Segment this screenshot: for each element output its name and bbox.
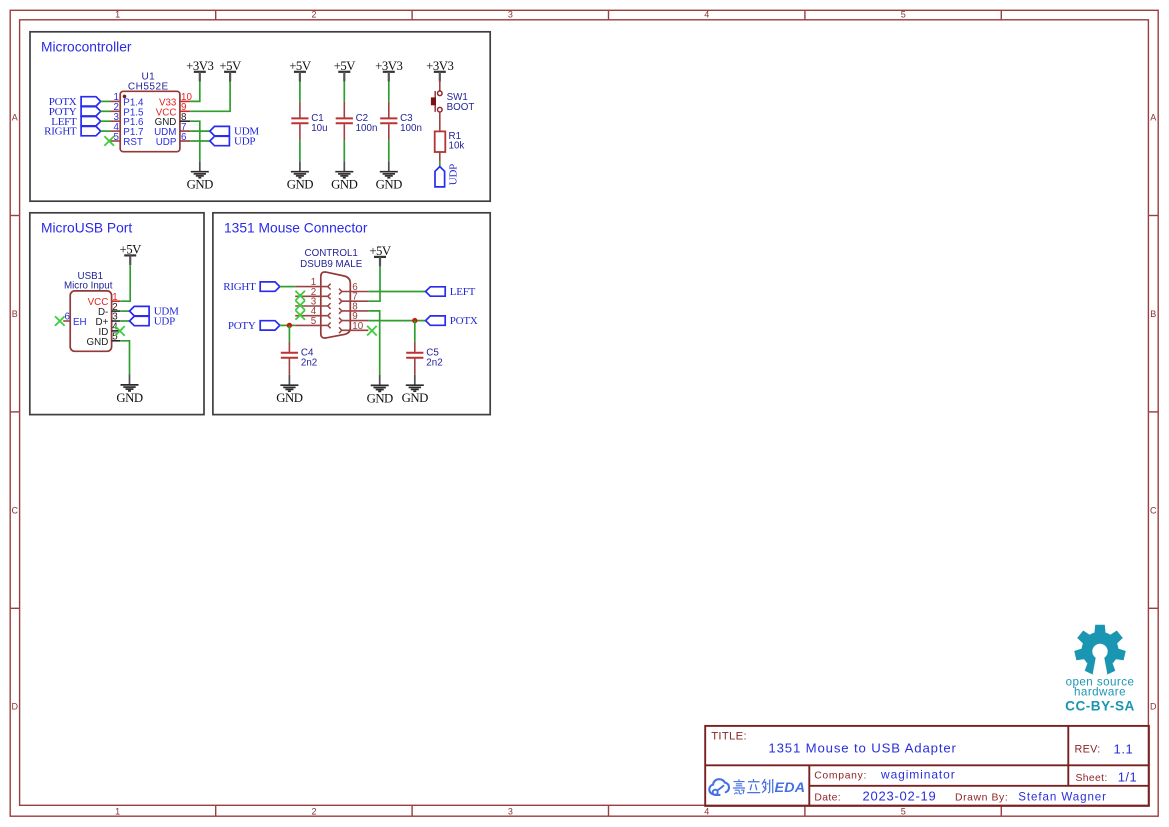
svg-text:EDA: EDA [775, 780, 806, 796]
svg-text:A: A [1150, 113, 1156, 123]
svg-text:3: 3 [508, 10, 513, 20]
svg-text:3: 3 [508, 806, 513, 816]
svg-text:RIGHT: RIGHT [44, 126, 77, 138]
no-connect X on USB1 ID pin4 [115, 326, 125, 336]
capacitor C4 2n2 [281, 342, 317, 375]
wire +3V3 to C3 [388, 82, 390, 102]
wire U1 pin7 to UDM flag [190, 130, 210, 132]
svg-text:Company:: Company: [814, 771, 867, 782]
ground below C5 [402, 375, 428, 405]
no-connect X on U1 RST pin5 [104, 136, 114, 146]
svg-text:Drawn By:: Drawn By: [955, 792, 1008, 803]
wire U1 pin6 to UDP flag [190, 140, 210, 142]
svg-text:5: 5 [901, 10, 906, 20]
svg-text:B: B [1150, 309, 1156, 319]
ground below U1 [187, 161, 213, 191]
no-connect X on CONTROL1 pin2 [295, 291, 305, 301]
svg-text:UDP: UDP [234, 136, 255, 148]
svg-text:2: 2 [311, 806, 316, 816]
MicroUSB Port section box [30, 213, 204, 415]
svg-text:C: C [1150, 505, 1157, 515]
svg-text:6: 6 [65, 312, 71, 323]
frame column labels bottom 1-5 [115, 806, 906, 816]
svg-text:10k: 10k [449, 141, 465, 152]
wire POTY to U1 pin2 [101, 110, 111, 112]
CC-BY-SA text [1065, 699, 1135, 714]
wire C1 to GND [299, 141, 301, 162]
power flag +5V (above C1) [289, 59, 312, 82]
EasyEDA logo text JLC-EDA [733, 779, 805, 796]
svg-text:Date:: Date: [814, 792, 841, 803]
svg-text:100n: 100n [400, 123, 422, 134]
power flag +3V3 (above C3) [375, 59, 402, 82]
svg-text:1351 Mouse to USB Adapter: 1351 Mouse to USB Adapter [768, 740, 956, 755]
svg-text:5: 5 [114, 132, 120, 143]
svg-text:UDP: UDP [448, 164, 460, 185]
svg-text:UDP: UDP [156, 137, 177, 148]
wire C2 to GND [343, 141, 345, 162]
svg-text:1351 Mouse Connector: 1351 Mouse Connector [224, 221, 368, 236]
svg-text:CC-BY-SA: CC-BY-SA [1065, 699, 1135, 714]
svg-text:4: 4 [704, 806, 709, 816]
svg-text:GND: GND [402, 391, 428, 405]
ground below C1 [287, 161, 313, 191]
wire CONTROL1 pin9 to POTX flag [368, 320, 425, 322]
svg-text:C: C [12, 505, 19, 515]
title text 1351 Mouse to USB Adapter [768, 740, 956, 755]
svg-text:GND: GND [276, 391, 302, 405]
svg-text:D: D [1150, 702, 1157, 712]
ground below C2 [331, 161, 357, 191]
svg-text:GND: GND [367, 391, 393, 405]
svg-text:CONTROL1: CONTROL1 [305, 248, 358, 259]
wire LEFT to U1 pin3 [101, 120, 111, 122]
wire USB1 GND pin5 to ground [120, 341, 129, 375]
wire +5V to USB1 VCC pin1 [120, 265, 130, 301]
svg-text:D: D [12, 702, 19, 712]
svg-text:5: 5 [311, 316, 317, 327]
U1 right pins 10 9 8 7 6 V33 VCC GND UDM UDP [154, 92, 192, 148]
ground below CONTROL1 pin8 [367, 375, 393, 405]
capacitor C2 100n [336, 102, 378, 141]
CONTROL1 left pins 1-5 [295, 277, 330, 328]
svg-text:GND: GND [116, 391, 142, 405]
Sheet label and value [1076, 769, 1138, 784]
svg-text:1: 1 [115, 10, 120, 20]
1351 Mouse Connector section title [224, 221, 368, 236]
wire U1 pin8 GND [190, 121, 200, 161]
power flag +5V (above C2) [334, 59, 357, 82]
MicroUSB Port section title [41, 221, 132, 236]
svg-text:6: 6 [181, 132, 187, 143]
connector USB1 Micro Input body [70, 291, 111, 351]
Company label and value [814, 768, 955, 782]
svg-text:POTY: POTY [228, 320, 256, 332]
open source hardware gear logo [1074, 625, 1125, 675]
power flag +5V (above USB1) [120, 242, 143, 265]
frame row labels right A-D [1150, 113, 1157, 712]
no-connect X on CONTROL1 pin4 [295, 310, 305, 320]
net flag RIGHT (input RIGHT to CONTROL1 pin1) [223, 281, 280, 293]
capacitor C3 100n [380, 102, 422, 141]
net flag RIGHT (input RIGHT to U1 pin4) [44, 126, 101, 138]
svg-text:GND: GND [87, 337, 109, 348]
power flag +3V3 (above SW1) [426, 59, 453, 82]
svg-text:BOOT: BOOT [447, 102, 475, 113]
svg-text:2: 2 [311, 10, 316, 20]
REV label and value [1075, 741, 1134, 756]
wire POTY net down to C4 [288, 325, 290, 342]
svg-text:4: 4 [704, 10, 709, 20]
svg-text:hardware: hardware [1074, 685, 1126, 698]
svg-text:1: 1 [115, 806, 120, 816]
net flag LEFT (input LEFT to U1 pin3) [51, 116, 100, 128]
svg-text:MicroUSB Port: MicroUSB Port [41, 221, 132, 236]
wire USB1 D- to UDM flag [120, 310, 129, 312]
title block outline [705, 726, 1149, 806]
ground below C4 [276, 375, 302, 405]
CONTROL1 right pins 6-10 [339, 282, 368, 333]
net flag UDP (net UDP from USB1 D+) [130, 316, 176, 328]
svg-text:LEFT: LEFT [450, 286, 476, 298]
connector CONTROL1 reference label [300, 248, 363, 270]
svg-text:RST: RST [123, 137, 143, 148]
net flag UDM (net UDM from USB1 D-) [130, 306, 180, 318]
title block TITLE label [711, 730, 747, 742]
svg-text:wagiminator: wagiminator [880, 768, 956, 782]
svg-text:5: 5 [901, 806, 906, 816]
frame column labels top 1-5 [115, 10, 906, 20]
wire RIGHT to CONTROL1 pin1 [280, 286, 295, 288]
svg-text:RIGHT: RIGHT [223, 281, 256, 293]
power flag +5V (above CONTROL1) [369, 244, 392, 267]
wire R1 to UDP flag [439, 152, 441, 167]
svg-text:B: B [12, 309, 18, 319]
connector USB1 reference label [64, 271, 113, 292]
no-connect X on CONTROL1 pin3 [295, 301, 305, 311]
Microcontroller section box [30, 32, 490, 201]
svg-text:2023-02-19: 2023-02-19 [863, 789, 937, 804]
svg-text:Sheet:: Sheet: [1076, 773, 1108, 784]
svg-text:GND: GND [287, 178, 313, 192]
capacitor C1 10u [291, 102, 327, 141]
wire CONTROL1 pin6 to LEFT flag [368, 291, 425, 293]
wire SW1 to R1 [439, 112, 441, 131]
wire POTX net down to C5 [414, 321, 416, 342]
ground below C3 [376, 161, 402, 191]
net flag UDP (output UDP from U1 pin6) [210, 136, 256, 148]
net flag LEFT (output LEFT from CONTROL1 pin6) [426, 286, 476, 298]
net flag UDP below R1 [435, 164, 460, 187]
wire POTX to U1 pin1 [101, 100, 111, 102]
wire USB1 D+ to UDP flag [120, 320, 129, 322]
wire CONTROL1 pin8 to ground [368, 311, 379, 375]
net flag POTY (input POTY to CONTROL1 pin5) [228, 320, 280, 332]
no-connect X on CONTROL1 pin10 [367, 326, 377, 336]
junction dot on POTX net [412, 318, 417, 323]
wire +3V3 to U1 pin10 [190, 82, 200, 102]
frame column ticks bottom [216, 805, 1002, 816]
wire +5V to CONTROL1 pin7 [368, 267, 380, 302]
wire +5V to C1 [299, 82, 301, 102]
net flag POTX (input POTX to U1 pin1) [49, 96, 101, 108]
IC U1 reference label [128, 71, 169, 92]
switch SW1 BOOT [431, 80, 474, 113]
connector CONTROL1 DSUB9 shell [321, 272, 351, 338]
svg-text:POTX: POTX [450, 315, 478, 327]
svg-text:Microcontroller: Microcontroller [41, 40, 132, 55]
svg-text:2n2: 2n2 [301, 357, 317, 368]
net flag POTX (output POTX from CONTROL1 pin9) [426, 315, 478, 327]
USB1 right pins 1-5 VCC D- D+ ID GND [87, 292, 121, 348]
net flag UDM (output UDM from U1 pin7) [210, 126, 260, 138]
frame row labels left A-D [12, 113, 19, 712]
svg-text:10: 10 [352, 321, 363, 332]
resistor R1 10k [435, 131, 465, 152]
svg-text:100n: 100n [356, 123, 378, 134]
U1 left pins 1-5 P1.4 P1.5 P1.6 P1.7 RST [111, 92, 145, 148]
svg-text:A: A [12, 113, 18, 123]
no-connect X on USB1 pin6 EH [55, 316, 65, 326]
net flag POTY (input POTY to U1 pin2) [49, 106, 101, 118]
wire RIGHT to U1 pin4 [101, 130, 111, 132]
svg-text:1.1: 1.1 [1114, 741, 1134, 756]
svg-text:GND: GND [376, 178, 402, 192]
svg-text:UDP: UDP [154, 316, 175, 328]
wire +5V to C2 [343, 82, 345, 102]
svg-text:DSUB9 MALE: DSUB9 MALE [300, 259, 363, 270]
IC U1 CH552E body [120, 91, 180, 151]
ground below USB1 [116, 375, 142, 405]
1351 Mouse Connector section box [213, 213, 490, 415]
svg-text:1/1: 1/1 [1118, 769, 1138, 784]
wire C3 to GND [388, 141, 390, 162]
svg-text:2n2: 2n2 [426, 357, 442, 368]
open source hardware text [1066, 675, 1135, 698]
svg-text:Micro Input: Micro Input [64, 281, 113, 292]
Date label and value [814, 789, 936, 804]
Microcontroller section title [41, 40, 132, 55]
svg-text:REV:: REV: [1075, 744, 1101, 756]
svg-text:10u: 10u [311, 123, 327, 134]
wire POTY to CONTROL1 pin5 [280, 324, 295, 326]
power flag +5V (to U1 VCC) [219, 59, 242, 82]
svg-text:Stefan Wagner: Stefan Wagner [1018, 791, 1107, 804]
frame column ticks top [216, 10, 1002, 19]
svg-text:GND: GND [331, 178, 357, 192]
power flag +3V3 (to U1 V33) [186, 59, 213, 82]
Drawn By label and value [955, 791, 1107, 804]
capacitor C5 2n2 [406, 342, 442, 375]
junction dot on POTY net [287, 323, 292, 328]
svg-text:TITLE:: TITLE: [711, 730, 747, 742]
EasyEDA logo cloud icon [709, 779, 729, 795]
frame row ticks right [1148, 216, 1158, 609]
svg-text:GND: GND [187, 178, 213, 192]
wire +5V to U1 pin9 [190, 82, 230, 112]
USB1 left pin 6 EH [63, 312, 86, 328]
frame row ticks left [10, 216, 19, 609]
svg-text:EH: EH [73, 317, 87, 328]
